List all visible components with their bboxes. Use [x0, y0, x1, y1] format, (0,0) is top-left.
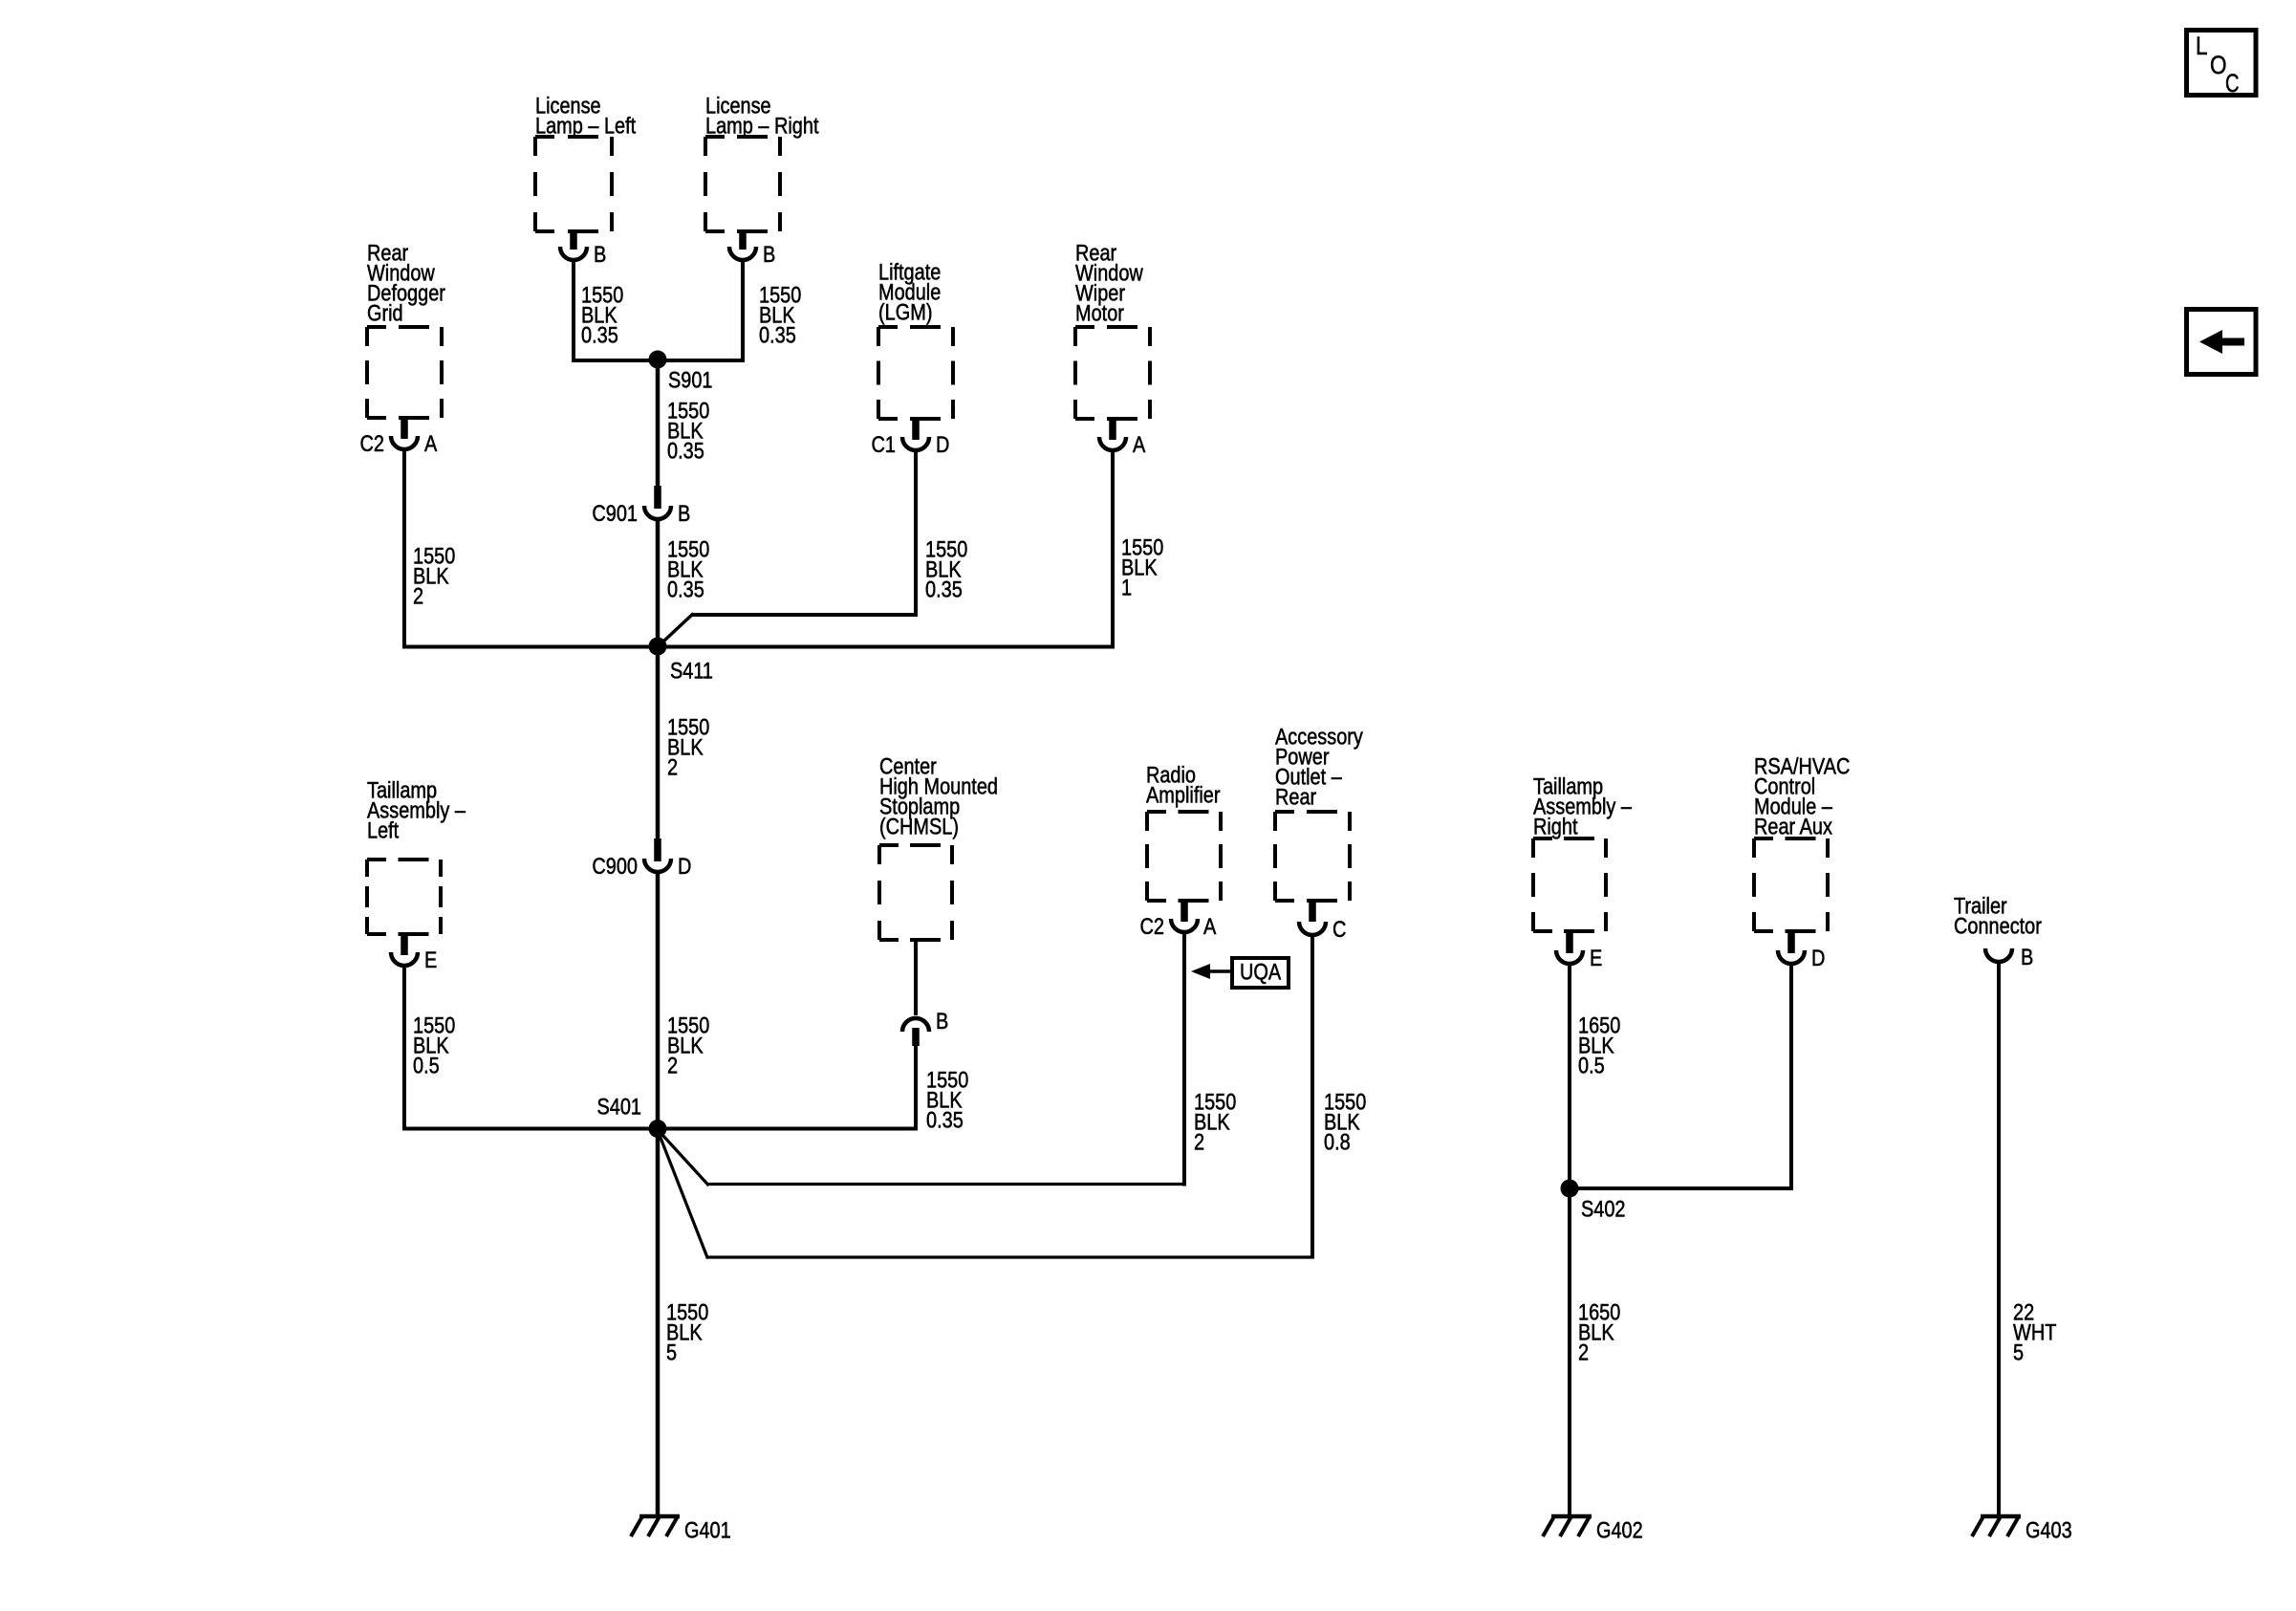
svg-text:2: 2 — [667, 1054, 678, 1079]
splice S401 — [597, 1095, 667, 1139]
svg-text:D: D — [936, 432, 949, 458]
svg-text:2: 2 — [1578, 1340, 1589, 1366]
back-arrow box — [2187, 310, 2257, 375]
svg-text:0.35: 0.35 — [667, 439, 704, 465]
inline connector C900 pin D — [592, 838, 691, 880]
connector C1 pin D of liftgate module — [872, 419, 950, 458]
wire wiper motor to S411 — [659, 452, 1115, 649]
svg-text:0.35: 0.35 — [926, 1108, 964, 1134]
wire C901 to S411 — [656, 521, 661, 647]
wire label 1550 BLK 1 (wiper) — [1121, 535, 1163, 601]
svg-text:Connector: Connector — [1954, 914, 2042, 940]
Taillamp Assembly - Left label — [367, 778, 466, 844]
connector pin B of trailer connector — [1985, 945, 2033, 970]
Accessory Power Outlet box — [1275, 810, 1350, 814]
svg-text:O: O — [2210, 51, 2227, 79]
wire label 22 WHT 5 (trailer) — [2013, 1300, 2057, 1366]
svg-text:E: E — [1590, 946, 1602, 971]
wire S411 to C900 — [656, 647, 661, 840]
svg-text:C1: C1 — [872, 432, 897, 458]
svg-text:G401: G401 — [684, 1518, 731, 1544]
Radio Amplifier label — [1146, 763, 1221, 809]
svg-text:(LGM): (LGM) — [878, 300, 933, 326]
svg-text:E: E — [424, 947, 437, 973]
wire liftgate module to S411 — [658, 452, 919, 647]
RSA/HVAC Control Module label — [1754, 754, 1850, 840]
svg-text:2: 2 — [667, 755, 678, 781]
License Lamp - Left label — [535, 94, 636, 140]
svg-text:L: L — [2196, 32, 2208, 60]
Liftgate Module box — [878, 325, 953, 329]
wire label 1550 BLK 2 (C900-S401) — [667, 1013, 709, 1079]
wire taillamp left to S401 — [402, 968, 658, 1131]
svg-text:C900: C900 — [592, 854, 638, 880]
wire label 1550 BLK 2 (defogger) — [413, 544, 455, 610]
wire trailer connector to G403 — [1997, 964, 2001, 1516]
Rear Window Wiper Motor label — [1075, 241, 1143, 327]
wire label 1550 BLK 0.5 (taillamp left) — [413, 1013, 455, 1079]
License Lamp - Right box — [705, 135, 780, 139]
connector C2 pin A of defogger grid — [360, 418, 438, 457]
wire label 1550 BLK 0.8 (accessory outlet) — [1324, 1090, 1366, 1156]
svg-text:S401: S401 — [597, 1095, 642, 1121]
svg-text:C: C — [2225, 69, 2240, 98]
wire defogger grid to S411 — [402, 451, 658, 649]
Accessory Power Outlet - Rear label — [1275, 725, 1363, 811]
svg-text:Rear Aux: Rear Aux — [1754, 815, 1832, 840]
wire label 1550 BLK 0.35 (liftgate) — [925, 537, 967, 603]
svg-text:0.5: 0.5 — [1578, 1054, 1605, 1079]
ground G401 — [631, 1516, 731, 1544]
ground G403 — [1972, 1516, 2072, 1544]
CHMSL box — [879, 843, 952, 847]
svg-text:Rear: Rear — [1275, 785, 1316, 811]
wire License Lamp - Left to S901 — [572, 262, 658, 360]
svg-text:C: C — [1332, 917, 1346, 943]
Liftgate Module (LGM) label — [878, 260, 941, 326]
svg-text:C901: C901 — [592, 501, 638, 527]
Rear Window Defogger Grid box — [367, 325, 442, 329]
inline connector C901 pin B — [592, 486, 690, 527]
wire RSA/HVAC module to S402 — [1568, 966, 1793, 1190]
License Lamp - Left box — [535, 135, 612, 139]
wire License Lamp - Right to S901 — [659, 262, 745, 360]
svg-text:B: B — [763, 242, 775, 268]
connector pin C of accessory power outlet — [1299, 901, 1346, 943]
wire label 1550 BLK 0.35 (CHMSL) — [926, 1068, 968, 1134]
svg-text:A: A — [1133, 432, 1145, 458]
svg-text:B: B — [936, 1009, 948, 1034]
Radio Amplifier box — [1147, 810, 1221, 814]
svg-text:Motor: Motor — [1075, 301, 1124, 327]
svg-text:0.35: 0.35 — [759, 323, 796, 349]
Taillamp Assembly - Right box — [1533, 837, 1606, 840]
svg-text:Right: Right — [1533, 815, 1578, 840]
wire C900 to S401 — [656, 874, 661, 1129]
svg-text:C2: C2 — [1140, 914, 1165, 940]
Taillamp Assembly - Left box — [367, 858, 441, 861]
svg-text:Left: Left — [367, 818, 399, 844]
wire label 1550 BLK 0.35 (S901-C901) — [667, 399, 709, 465]
svg-text:Grid: Grid — [367, 301, 403, 327]
wire radio amplifier to S401 — [658, 934, 1186, 1186]
wire S401 to G401 — [656, 1129, 661, 1516]
wire label 1550 BLK 0.35 (right license) — [759, 283, 801, 349]
Center High Mounted Stoplamp label — [879, 754, 998, 840]
wire CHMSL connector to S401 — [659, 1046, 918, 1131]
Rear Window Defogger Grid label — [367, 241, 445, 327]
svg-text:B: B — [594, 242, 606, 268]
RSA/HVAC Control Module box — [1754, 837, 1828, 840]
ground G402 — [1543, 1516, 1643, 1544]
Rear Window Wiper Motor box — [1075, 325, 1150, 329]
svg-text:2: 2 — [1194, 1130, 1204, 1156]
wire CHMSL to connector B — [914, 940, 918, 1015]
wire S901 to C901 — [656, 360, 661, 488]
LOC reference box — [2187, 31, 2257, 98]
svg-text:S411: S411 — [670, 659, 713, 685]
svg-text:0.35: 0.35 — [581, 323, 618, 349]
svg-text:UQA: UQA — [1240, 960, 1281, 986]
svg-text:Amplifier: Amplifier — [1146, 783, 1221, 809]
wire label 1550 BLK 5 (S401-G401) — [666, 1300, 708, 1366]
UQA option box — [1232, 958, 1289, 988]
svg-text:G402: G402 — [1596, 1518, 1643, 1544]
svg-text:1: 1 — [1121, 576, 1132, 601]
connector pin A of wiper motor — [1099, 419, 1145, 458]
svg-text:A: A — [1203, 914, 1216, 940]
connector pin E of taillamp left — [391, 934, 437, 973]
splice S402 — [1561, 1180, 1626, 1223]
wire label 1550 BLK 0.35 (left license) — [581, 283, 623, 349]
inline connector pin B of CHMSL — [902, 1009, 948, 1046]
wire taillamp right to S402 — [1568, 966, 1571, 1188]
Trailer Connector label — [1954, 894, 2042, 940]
svg-text:S402: S402 — [1581, 1197, 1626, 1223]
svg-text:B: B — [2021, 945, 2033, 970]
svg-text:A: A — [424, 431, 437, 457]
wire label 1550 BLK 2 (radio amp) — [1194, 1090, 1236, 1156]
UQA option arrow — [1191, 964, 1232, 979]
wire label 1550 BLK 2 (S411-C900) — [667, 715, 709, 781]
svg-text:S901: S901 — [668, 368, 713, 394]
wire label 1650 BLK 2 (S402-G402) — [1578, 1300, 1620, 1366]
svg-text:D: D — [678, 854, 691, 880]
connector C2 pin A of radio amplifier — [1140, 901, 1217, 940]
svg-text:5: 5 — [666, 1340, 677, 1366]
connector pin D of RSA/HVAC module — [1778, 931, 1825, 971]
svg-text:D: D — [1811, 946, 1825, 971]
splice S411 — [649, 638, 714, 685]
wire label 1550 BLK 0.35 (C901-S411) — [667, 537, 709, 603]
Taillamp Assembly - Right label — [1533, 774, 1633, 840]
svg-text:B: B — [678, 501, 690, 527]
svg-text:0.35: 0.35 — [925, 577, 963, 603]
svg-text:0.8: 0.8 — [1324, 1130, 1351, 1156]
svg-text:2: 2 — [413, 584, 423, 610]
svg-text:G403: G403 — [2025, 1518, 2072, 1544]
svg-text:0.35: 0.35 — [667, 577, 704, 603]
svg-text:(CHMSL): (CHMSL) — [879, 815, 959, 840]
License Lamp - Right label — [705, 94, 819, 140]
connector pin B of License Lamp - Left — [560, 231, 606, 268]
svg-text:5: 5 — [2013, 1340, 2024, 1366]
svg-text:0.5: 0.5 — [413, 1054, 440, 1079]
connector pin E of taillamp right — [1556, 931, 1602, 971]
splice S901 — [649, 351, 713, 394]
wire accessory outlet to S401 — [658, 937, 1314, 1259]
wire label 1650 BLK 0.5 (taillamp right) — [1578, 1013, 1620, 1079]
connector pin B of License Lamp - Right — [729, 231, 775, 268]
wire S402 to G402 — [1568, 1188, 1571, 1516]
svg-text:C2: C2 — [360, 431, 385, 457]
